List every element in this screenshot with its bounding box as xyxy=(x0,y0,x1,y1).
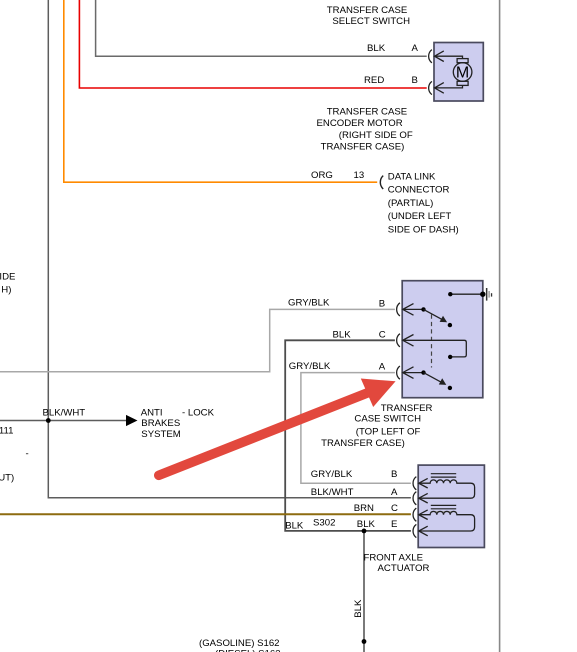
switch pin C arrow and contact xyxy=(403,335,467,357)
svg-text:ACTUATOR: ACTUATOR xyxy=(378,563,430,574)
wire ORG xyxy=(64,0,377,182)
actuator pin A connector arc xyxy=(413,492,416,505)
switch blade B xyxy=(424,309,442,319)
svg-text:ORG: ORG xyxy=(311,170,333,181)
svg-text:(DIESEL) S163: (DIESEL) S163 xyxy=(215,649,281,652)
svg-text:GRY/BLK: GRY/BLK xyxy=(289,361,331,372)
svg-text:SYSTEM: SYSTEM xyxy=(141,429,180,440)
motor pin A arrow xyxy=(435,51,463,62)
junction S-dot on BLK/WHT xyxy=(46,418,51,423)
actuator pin C arrowhead xyxy=(419,510,428,520)
switch pin A arrow xyxy=(403,367,424,379)
actuator coil 1 xyxy=(419,480,475,498)
switch linkage dashed xyxy=(431,315,433,368)
actuator pin C connector arc xyxy=(413,508,416,521)
svg-text:B: B xyxy=(391,469,397,480)
svg-text:A: A xyxy=(412,43,419,54)
switch blade A xyxy=(424,373,441,382)
actuator pin B arrowhead xyxy=(419,478,428,488)
wire BLK/WHT vertical left rail to actuator pin A xyxy=(48,0,411,498)
transfer case switch box xyxy=(402,281,483,398)
front axle actuator box xyxy=(418,465,484,547)
switch ground contact line xyxy=(450,293,483,295)
svg-text:B: B xyxy=(412,75,418,86)
svg-text:(PARTIAL): (PARTIAL) xyxy=(388,198,434,209)
actuator pin E arrowhead xyxy=(419,526,428,536)
svg-text:BLK/WHT: BLK/WHT xyxy=(311,487,354,498)
switch pin B arrow xyxy=(403,304,424,316)
svg-text:(RIGHT SIDE OF: (RIGHT SIDE OF xyxy=(339,130,413,141)
motor pin B arrow xyxy=(435,83,463,94)
svg-text:ANTI: ANTI xyxy=(141,407,163,418)
svg-text:CASE SWITCH: CASE SWITCH xyxy=(354,414,421,425)
actuator pin E connector arc xyxy=(413,524,416,537)
svg-text:A: A xyxy=(379,362,386,373)
svg-text:13: 13 xyxy=(354,170,365,181)
svg-text:E: E xyxy=(391,519,397,530)
motor M1 symbol xyxy=(453,59,472,86)
svg-text:TRANSFER CASE: TRANSFER CASE xyxy=(327,5,408,16)
svg-text:- LOCK: - LOCK xyxy=(182,407,215,418)
case ground symbol xyxy=(486,288,488,301)
wire BLK to motor pin A xyxy=(96,0,427,56)
svg-text:SIDE OF DASH): SIDE OF DASH) xyxy=(388,224,459,235)
wire GRY/BLK switch pin A to actuator pin B xyxy=(301,373,411,484)
svg-text:TRANSFER: TRANSFER xyxy=(381,403,433,414)
svg-text:UT): UT) xyxy=(0,472,14,483)
arrow to anti-lock brakes system xyxy=(126,415,138,426)
svg-text:GRY/BLK: GRY/BLK xyxy=(288,297,330,308)
wire RED xyxy=(79,0,426,88)
actuator coil 2 core xyxy=(431,504,456,506)
svg-text:BLK: BLK xyxy=(333,330,352,341)
svg-text:BRN: BRN xyxy=(354,503,374,514)
actuator pin B connector arc xyxy=(413,477,416,490)
svg-text:BLK: BLK xyxy=(353,599,364,618)
svg-text:RED: RED xyxy=(364,75,384,86)
svg-text:SELECT SWITCH: SELECT SWITCH xyxy=(332,16,410,27)
wire GRY/BLK to switch pin B xyxy=(0,309,395,371)
actuator pin A arrowhead xyxy=(419,493,428,503)
data link connector arc xyxy=(380,176,383,189)
svg-text:M: M xyxy=(456,65,469,82)
svg-text:-: - xyxy=(26,449,29,460)
svg-text:(UNDER LEFT: (UNDER LEFT xyxy=(388,211,452,222)
wire BLK switch pin C to actuator pin E xyxy=(285,340,411,531)
actuator coil 1 core xyxy=(431,473,456,475)
svg-text:TRANSFER CASE): TRANSFER CASE) xyxy=(321,141,405,152)
junction dot S162 xyxy=(362,639,367,644)
svg-text:BLK: BLK xyxy=(285,520,304,531)
wire BLK below splice S302 xyxy=(363,531,365,652)
svg-text:GRY/BLK: GRY/BLK xyxy=(311,469,353,480)
switch pin C connector arc xyxy=(397,334,400,347)
svg-text:(GASOLINE) S162: (GASOLINE) S162 xyxy=(199,638,280,649)
svg-text:CONNECTOR: CONNECTOR xyxy=(388,185,450,196)
svg-text:BRAKES: BRAKES xyxy=(141,418,180,429)
switch pin A connector arc xyxy=(397,366,400,379)
red annotation arrow xyxy=(159,392,371,476)
svg-text:BLK: BLK xyxy=(367,43,386,54)
switch pin B connector arc xyxy=(397,303,400,316)
svg-text:BLK/WHT: BLK/WHT xyxy=(43,408,86,419)
svg-text:B: B xyxy=(379,298,385,309)
svg-text:FRONT AXLE: FRONT AXLE xyxy=(364,553,424,564)
svg-text:DATA LINK: DATA LINK xyxy=(388,171,436,182)
svg-text:H): H) xyxy=(1,284,11,295)
svg-text:BLK: BLK xyxy=(357,519,376,530)
svg-text:S302: S302 xyxy=(313,517,335,528)
svg-text:IDE: IDE xyxy=(0,272,15,283)
svg-text:ENCODER MOTOR: ENCODER MOTOR xyxy=(317,118,403,129)
svg-text:C: C xyxy=(379,329,386,340)
motor pin A connector arc xyxy=(429,50,432,63)
svg-text:C: C xyxy=(391,503,398,514)
svg-text:TRANSFER CASE): TRANSFER CASE) xyxy=(321,438,405,449)
svg-text:TRANSFER CASE: TRANSFER CASE xyxy=(327,106,408,117)
svg-text:A: A xyxy=(391,487,398,498)
vertical rail right xyxy=(499,0,501,652)
wire BLK/WHT branch to ABS xyxy=(0,420,127,422)
actuator coil 2 xyxy=(419,511,475,531)
transfer case encoder motor box xyxy=(434,43,483,102)
wire BRN to actuator pin C xyxy=(0,513,411,515)
svg-text:(TOP LEFT OF: (TOP LEFT OF xyxy=(356,426,421,437)
junction dot S302 xyxy=(362,529,367,534)
svg-text:111: 111 xyxy=(0,425,14,436)
motor pin B connector arc xyxy=(429,81,432,94)
